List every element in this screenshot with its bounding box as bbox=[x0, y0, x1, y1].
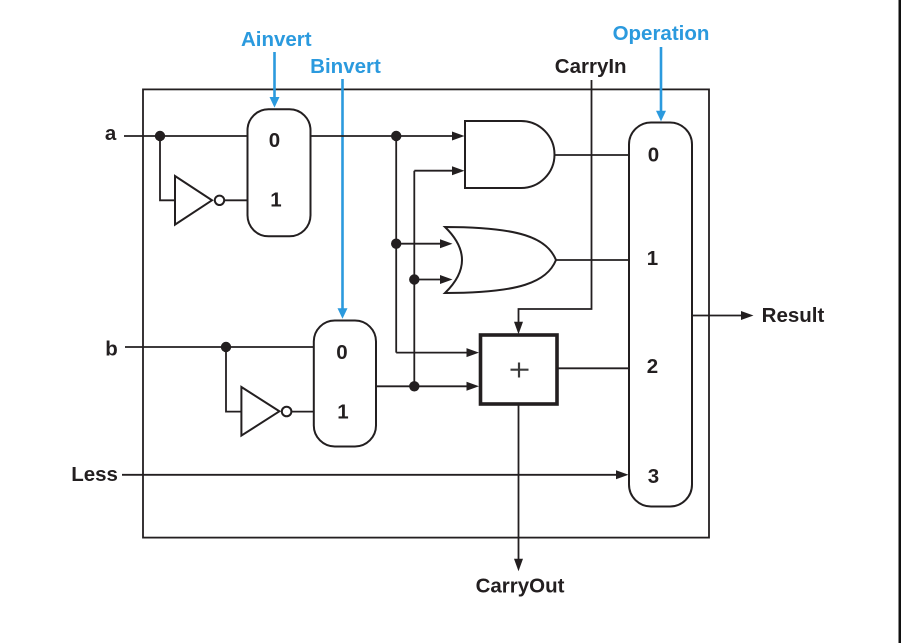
wire a-bus to OR input 1 bbox=[396, 239, 452, 248]
wire OR output bbox=[556, 259, 629, 261]
node b-bus bottom bbox=[409, 381, 419, 391]
mux Binvert bbox=[314, 321, 376, 447]
wire mux a output to AND bbox=[311, 132, 465, 141]
svg-text:1: 1 bbox=[337, 401, 348, 424]
node a junction bbox=[155, 131, 165, 141]
svg-text:0: 0 bbox=[269, 129, 280, 152]
node a-bus top bbox=[391, 131, 401, 141]
svg-text:1: 1 bbox=[270, 189, 281, 212]
svg-text:CarryIn: CarryIn bbox=[555, 55, 627, 78]
AND gate bbox=[465, 121, 555, 188]
svg-text:CarryOut: CarryOut bbox=[476, 575, 565, 598]
inverter (b) bbox=[241, 387, 291, 436]
svg-text:b: b bbox=[105, 338, 118, 361]
wire Result bbox=[692, 311, 754, 320]
svg-text:0: 0 bbox=[648, 144, 659, 167]
wire CarryIn bbox=[514, 80, 592, 334]
mux Operation bbox=[629, 123, 692, 507]
wire a input bbox=[124, 135, 248, 137]
svg-text:Result: Result bbox=[762, 304, 825, 327]
svg-text:1: 1 bbox=[647, 247, 658, 270]
wire Less bbox=[122, 470, 629, 479]
wire b-bus vertical bbox=[413, 171, 415, 387]
svg-text:3: 3 bbox=[648, 465, 659, 488]
outer ALU box bbox=[143, 89, 709, 537]
wire AND output bbox=[555, 154, 630, 156]
svg-text:Binvert: Binvert bbox=[310, 55, 381, 78]
wire b branch to inverter bbox=[226, 347, 241, 412]
wire b-bus to OR input 2 bbox=[414, 275, 452, 284]
Binvert select arrow bbox=[338, 79, 348, 319]
svg-text:a: a bbox=[105, 122, 117, 145]
node b-bus to OR bbox=[409, 274, 419, 284]
wire inverter b to mux bbox=[291, 411, 313, 413]
Ainvert select arrow bbox=[270, 52, 280, 108]
wire CarryOut bbox=[514, 406, 523, 572]
Operation select arrow bbox=[656, 47, 666, 121]
node a-bus to OR bbox=[391, 239, 401, 249]
node b junction bbox=[221, 342, 231, 352]
adder bbox=[481, 335, 558, 404]
svg-text:Less: Less bbox=[71, 463, 118, 486]
inverter (a) bbox=[175, 176, 224, 225]
svg-text:Ainvert: Ainvert bbox=[241, 28, 312, 51]
svg-text:Operation: Operation bbox=[613, 22, 710, 45]
wire b-bus to AND input 2 bbox=[414, 166, 464, 175]
wire a-bus vertical bbox=[395, 136, 397, 353]
wire mux b output to adder bbox=[376, 382, 479, 391]
mux Ainvert bbox=[248, 109, 311, 236]
svg-text:0: 0 bbox=[336, 341, 347, 364]
wire b input bbox=[125, 346, 314, 348]
wire adder output bbox=[557, 367, 629, 369]
wire inverter a to mux bbox=[224, 199, 247, 201]
svg-text:2: 2 bbox=[647, 355, 658, 378]
wire a branch to inverter bbox=[160, 136, 175, 200]
OR gate bbox=[445, 227, 556, 293]
wire a-bus to adder input 1 bbox=[396, 348, 479, 357]
